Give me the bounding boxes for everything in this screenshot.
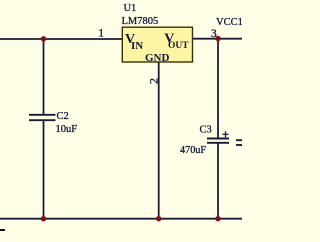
C3 designator label xyxy=(200,125,212,136)
svg-text:C2: C2 xyxy=(57,111,69,122)
C2 value label 10uF xyxy=(56,124,78,135)
pin 2 number (rotated) xyxy=(147,78,161,84)
junction: ground net / C2 branch xyxy=(41,216,46,221)
svg-text:470uF: 470uF xyxy=(180,145,206,156)
wire: C2 branch upper segment xyxy=(43,39,45,114)
svg-text:C3: C3 xyxy=(200,125,212,136)
C3 value label 470uF xyxy=(180,145,206,156)
wire: C3 branch lower segment xyxy=(217,143,219,219)
junction: VCC1 net / C3 branch xyxy=(215,36,220,41)
svg-text:3: 3 xyxy=(211,28,217,40)
U1 value label LM7805 xyxy=(122,16,159,27)
capacitor C2 plates xyxy=(29,115,56,120)
wire: partial stub at lower-left edge xyxy=(0,229,5,231)
svg-text:U1: U1 xyxy=(124,3,137,14)
svg-text:GND: GND xyxy=(145,52,170,64)
capacitor C3 plates xyxy=(207,139,229,143)
svg-text:1: 1 xyxy=(98,27,104,39)
wire: C2 branch lower segment xyxy=(43,121,45,220)
svg-text:2: 2 xyxy=(147,78,161,84)
wire: C3 branch upper segment xyxy=(217,39,219,138)
svg-text:VCC1: VCC1 xyxy=(216,17,242,28)
svg-text:OUT: OUT xyxy=(168,41,189,51)
capacitor C4 plates (partial at right edge) xyxy=(236,140,242,145)
svg-text:IN: IN xyxy=(131,40,143,52)
pin 1 number xyxy=(98,27,104,39)
junction: top net / C2 branch xyxy=(41,36,46,41)
svg-text:LM7805: LM7805 xyxy=(122,16,159,27)
U1 designator label xyxy=(124,3,137,14)
junction: ground net / U1 GND pin xyxy=(156,216,161,221)
net label VCC1 xyxy=(216,17,243,28)
wire: U1 VOUT pin to right, VCC1 net xyxy=(192,38,242,40)
C2 designator label xyxy=(57,111,69,122)
pin 3 number xyxy=(211,28,217,40)
C3 polarity plus sign xyxy=(223,131,229,137)
wire: U1 GND pin down to ground net xyxy=(158,62,160,219)
svg-text:10uF: 10uF xyxy=(56,124,78,135)
wire: bottom ground net across sheet xyxy=(0,218,242,220)
regulator U1 body xyxy=(122,27,192,64)
wire: top net from left edge to U1 VIN pin xyxy=(0,38,123,40)
junction: ground net / C3 branch xyxy=(215,216,220,221)
